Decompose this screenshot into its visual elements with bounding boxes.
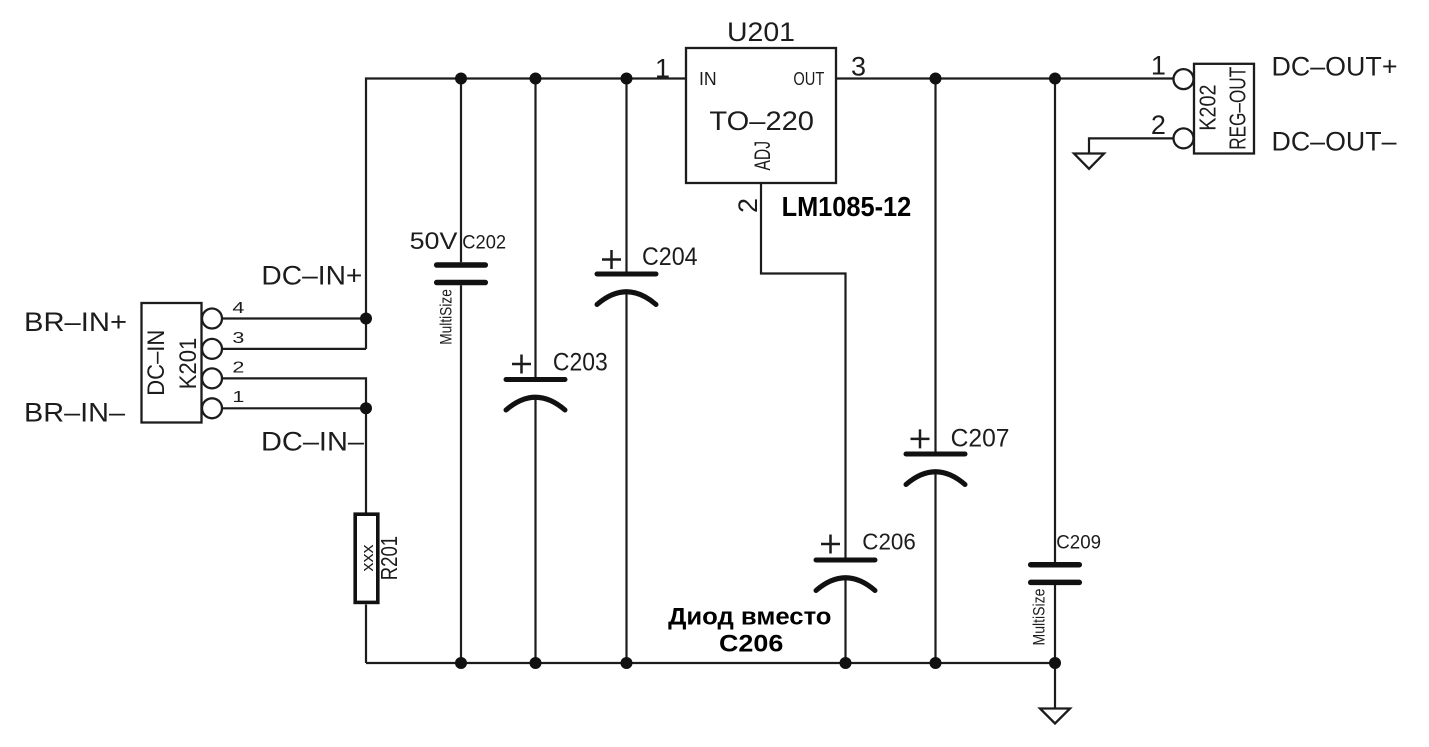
svg-text:LM1085-12: LM1085-12 (782, 191, 912, 222)
capacitor C202 plates (437, 262, 486, 268)
K201 pin 2 circle (202, 368, 222, 388)
junction dot top rail C203 (530, 73, 542, 85)
junction dot bottom C209 (1049, 657, 1061, 669)
svg-text:1: 1 (1151, 51, 1166, 81)
svg-text:C207: C207 (951, 424, 1010, 452)
wire U201 OUT rail (836, 77, 1174, 79)
C204 plus sign (602, 250, 621, 269)
capacitor C207 plate (906, 452, 965, 457)
svg-text:MultiSize: MultiSize (436, 289, 455, 345)
svg-text:IN: IN (699, 68, 717, 89)
capacitor C204 arc (597, 292, 656, 305)
K201 pin 3 circle (202, 339, 222, 359)
C207 plus sign (911, 429, 930, 448)
svg-text:С206: С206 (719, 630, 783, 657)
wire C203 bottom (534, 398, 536, 664)
junction dot out rail C207 (930, 73, 942, 85)
capacitor C206 arc (816, 578, 875, 591)
svg-text:4: 4 (232, 300, 244, 317)
svg-text:C206: C206 (862, 529, 916, 555)
wire C209 bottom (1054, 585, 1056, 663)
svg-text:R201: R201 (376, 536, 402, 580)
wire left vertical to R201 (365, 408, 367, 512)
junction dot top rail C202 (455, 73, 467, 85)
ground symbol bottom right (1040, 709, 1070, 724)
wire K201 pin2 (222, 378, 366, 408)
wire R201 to bottom rail (365, 605, 367, 664)
svg-text:MultiSize: MultiSize (1029, 589, 1048, 646)
wire C209 top (1054, 79, 1056, 563)
svg-text:2: 2 (733, 198, 763, 213)
junction dot bottom C206 (840, 657, 852, 669)
svg-text:BR–IN–: BR–IN– (24, 398, 125, 428)
wire U201 ADJ to C206 (761, 183, 846, 558)
wire C202 bottom (460, 285, 462, 663)
capacitor C206 plate (816, 558, 875, 563)
wire C209 to ground (1054, 663, 1056, 709)
capacitor C207 arc (906, 472, 965, 485)
wire C206 bottom (844, 578, 846, 663)
capacitor C203 plate (506, 377, 565, 382)
junction dot pin1/DC-IN- (360, 402, 372, 414)
resistor R201 body (355, 514, 378, 602)
svg-text:3: 3 (232, 330, 244, 347)
svg-text:xxx: xxx (358, 544, 377, 572)
K202 pin 1 circle (1174, 69, 1194, 89)
svg-text:C209: C209 (1056, 533, 1101, 554)
wire K201 pin3 (222, 348, 366, 350)
svg-text:TO–220: TO–220 (709, 106, 814, 136)
svg-text:DC–OUT+: DC–OUT+ (1272, 52, 1398, 82)
junction dot top rail C204 (621, 73, 633, 85)
junction dot pin4/DC-IN+ (360, 313, 372, 325)
svg-text:OUT: OUT (793, 68, 824, 89)
svg-text:K202: K202 (1195, 85, 1221, 131)
wire C204 bottom (625, 292, 627, 663)
svg-text:REG–OUT: REG–OUT (1225, 67, 1251, 150)
K201 pin 1 circle (202, 398, 222, 418)
svg-text:3: 3 (851, 51, 866, 81)
K201 pin 4 circle (202, 309, 222, 329)
ground symbol at K202 pin2 (1074, 154, 1104, 169)
junction dot bottom C204 (621, 657, 633, 669)
connector K202 box (1194, 64, 1254, 154)
wire K202 pin2 to ground (1089, 138, 1174, 153)
svg-text:2: 2 (1151, 110, 1166, 140)
wire C207 bottom (934, 473, 936, 664)
svg-text:K201: K201 (175, 338, 202, 390)
wire bottom rail (366, 662, 1055, 664)
svg-text:BR–IN+: BR–IN+ (24, 307, 127, 337)
svg-text:ADJ: ADJ (750, 141, 775, 171)
connector K201 box (142, 303, 202, 423)
capacitor C204 plate (597, 272, 656, 277)
svg-text:50V: 50V (410, 228, 458, 255)
svg-text:1: 1 (232, 389, 244, 406)
svg-text:Диод вместо: Диод вместо (668, 604, 831, 631)
svg-text:U201: U201 (727, 17, 795, 47)
junction dot out rail C209 (1049, 73, 1061, 85)
svg-text:DC–OUT–: DC–OUT– (1272, 127, 1397, 157)
wire top rail DC-IN+ net (366, 79, 686, 349)
wire C207 top (934, 79, 936, 452)
svg-text:2: 2 (232, 360, 244, 377)
capacitor C209 plates (1031, 562, 1080, 568)
C203 plus sign (512, 355, 531, 374)
svg-text:DC–IN: DC–IN (143, 330, 170, 396)
svg-text:DC–IN–: DC–IN– (261, 427, 364, 457)
junction dot bottom C207 (930, 657, 942, 669)
svg-text:C202: C202 (462, 232, 506, 253)
regulator U201 box (686, 48, 836, 183)
wire C202 top (460, 79, 462, 263)
wire C203 top (534, 79, 536, 378)
wire C204 top (625, 79, 627, 272)
C206 plus sign (821, 535, 840, 554)
wire K201 pin4 (222, 317, 366, 319)
capacitor C203 arc (506, 397, 565, 410)
junction dot bottom C202 (455, 657, 467, 669)
junction dot bottom C203 (530, 657, 542, 669)
svg-text:C204: C204 (642, 243, 698, 271)
K202 pin 2 circle (1174, 128, 1194, 148)
svg-text:1: 1 (655, 53, 670, 83)
wire K201 pin1 (222, 407, 366, 409)
svg-text:C203: C203 (553, 349, 608, 377)
svg-text:DC–IN+: DC–IN+ (261, 261, 362, 291)
